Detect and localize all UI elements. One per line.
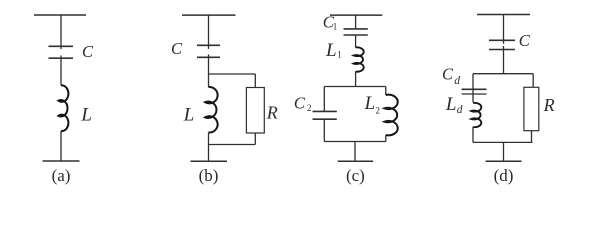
- svg-text:L: L: [183, 104, 195, 125]
- svg-text:R: R: [543, 95, 555, 115]
- svg-text:(d): (d): [494, 166, 514, 185]
- svg-text:C: C: [442, 65, 454, 84]
- svg-text:L: L: [445, 94, 457, 115]
- svg-text:C: C: [294, 94, 306, 113]
- svg-text:L: L: [80, 105, 92, 126]
- svg-text:L: L: [325, 40, 337, 61]
- svg-text:d: d: [457, 104, 463, 116]
- svg-text:1: 1: [337, 50, 342, 60]
- svg-text:C: C: [171, 39, 183, 58]
- svg-text:C: C: [519, 31, 531, 50]
- svg-text:(c): (c): [346, 166, 365, 185]
- svg-text:C: C: [82, 42, 94, 61]
- svg-text:(b): (b): [199, 166, 219, 185]
- svg-text:R: R: [266, 102, 278, 122]
- svg-text:(a): (a): [52, 166, 71, 185]
- svg-text:2: 2: [307, 103, 312, 113]
- svg-text:2: 2: [376, 105, 381, 115]
- svg-text:L: L: [364, 93, 376, 114]
- svg-text:1: 1: [333, 22, 338, 32]
- svg-text:d: d: [454, 75, 460, 87]
